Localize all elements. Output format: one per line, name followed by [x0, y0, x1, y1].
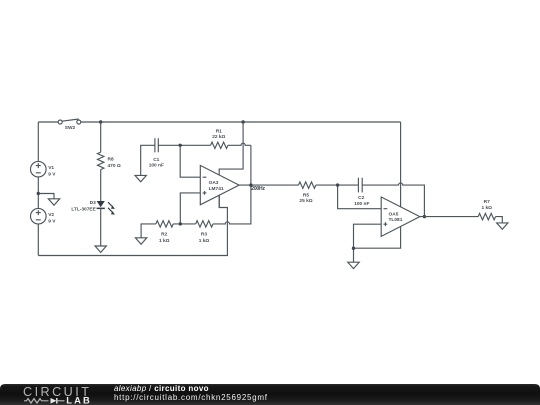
logo diode: [51, 398, 65, 404]
svg-text:D3: D3: [90, 200, 96, 206]
LED D3 LTL-307EE: [71, 200, 115, 215]
wire D3 to ground: [100, 208, 102, 246]
svg-text:LAB: LAB: [66, 395, 90, 405]
footer title alexiabp / circuito novo: [114, 384, 209, 393]
wire R3 right with hop over V- line, up to output node: [213, 185, 251, 224]
resistor R8 470 ohm: [98, 152, 121, 169]
wire ground to C1: [141, 145, 155, 175]
wire OA3 output: [239, 184, 298, 186]
op-amp OA3 LM741: [200, 165, 239, 204]
op-amp OA5 TL081: [381, 197, 420, 236]
resistor R1 22 kohm: [211, 128, 228, 148]
wire OA3 V+ pin from top rail: [219, 122, 243, 175]
ground below D3: [95, 246, 106, 252]
svg-text:OA3: OA3: [209, 180, 219, 186]
svg-text:R2: R2: [161, 232, 167, 238]
svg-text:C1: C1: [153, 157, 159, 163]
wire R7 to ground: [496, 217, 503, 223]
svg-text:alexiabp / circuito novo: alexiabp / circuito novo: [114, 384, 209, 393]
ground below OA5: [348, 262, 359, 268]
svg-text:1 kΩ: 1 kΩ: [481, 205, 492, 211]
svg-text:9 V: 9 V: [48, 171, 56, 177]
ground at C1 left: [135, 175, 146, 181]
node output OA5: [423, 215, 426, 218]
footer bar: [0, 384, 540, 405]
svg-text:V1: V1: [48, 165, 54, 171]
wire OA5 V+ pin from top rail: [400, 122, 402, 207]
resistor R3 1 kohm: [196, 221, 213, 244]
wire R5 to node C: [316, 184, 359, 186]
wire V1 top: [37, 122, 39, 161]
capacitor C2 100 nF: [354, 178, 369, 207]
wire OA3 V- pin to bottom rail (stub): [218, 195, 220, 207]
svg-text:R3: R3: [201, 232, 207, 238]
wire feedback vertical R1 to output node: [250, 145, 252, 185]
logo LAB: [66, 395, 90, 405]
svg-text:http://circuitlab.com/chkn2569: http://circuitlab.com/chkn256925gmf: [114, 393, 268, 402]
wire node A to inverting input: [180, 145, 200, 177]
wire ground to R2: [141, 224, 156, 238]
svg-text:R8: R8: [108, 156, 114, 162]
svg-text:R5: R5: [303, 193, 309, 199]
voltage source V1: [31, 161, 57, 177]
ground at R2 left: [135, 238, 146, 244]
wire top rail to R8: [100, 122, 102, 152]
svg-text:100 nF: 100 nF: [354, 201, 369, 207]
resistor R5 25 kohm: [299, 182, 316, 204]
node C junction R5/C2/OA5 inverting: [336, 183, 339, 186]
footer url: [114, 393, 268, 402]
voltage source V2: [31, 208, 57, 224]
svg-text:200Hz: 200Hz: [251, 186, 265, 192]
svg-text:V2: V2: [48, 212, 54, 218]
wire C2 right with hop over OA5 V+ line, to output corner: [362, 183, 424, 217]
svg-text:LTL-307EE: LTL-307EE: [71, 206, 96, 212]
wire node D to OA5 V- pin: [354, 227, 401, 249]
node output OA3 (200Hz): [249, 183, 265, 192]
wire OA5 output to R7: [420, 216, 478, 218]
ground after R7: [497, 223, 508, 229]
svg-text:R1: R1: [216, 128, 222, 134]
node junction top rail / OA3 V+: [241, 120, 244, 123]
svg-text:SW2: SW2: [65, 125, 76, 131]
node B junction R2/R3/non-inverting: [179, 222, 182, 225]
node A junction C1/R1/inverting input: [179, 144, 182, 147]
wire OA5 non-inverting input to ground node: [354, 224, 382, 262]
svg-text:R7: R7: [484, 199, 490, 205]
svg-text:470 Ω: 470 Ω: [108, 163, 121, 169]
wire node C down to OA5 inverting input: [338, 185, 382, 209]
wire R8 to D3: [100, 170, 102, 201]
ground battery midpoint: [48, 199, 59, 205]
wire non-inverting input down to R2/R3 node: [180, 193, 200, 224]
wire V2 bottom to bottom rail: [37, 224, 39, 256]
wire R2 to R3: [173, 223, 196, 225]
node battery midpoint: [37, 192, 40, 195]
logo resistor zigzag: [24, 399, 49, 403]
switch SW2: [58, 119, 81, 131]
wire midpoint to ground: [38, 194, 54, 199]
resistor R2 1 kohm: [156, 221, 173, 244]
svg-text:1 kΩ: 1 kΩ: [159, 238, 170, 244]
svg-text:25 kΩ: 25 kΩ: [299, 198, 312, 204]
svg-text:9 V: 9 V: [48, 218, 56, 224]
svg-text:1 kΩ: 1 kΩ: [199, 238, 210, 244]
svg-text:C2: C2: [358, 195, 364, 201]
logo CIRCUIT: [23, 385, 91, 399]
svg-text:LM741: LM741: [209, 186, 224, 192]
wire V1 bottom to midpoint: [37, 177, 39, 208]
svg-text:100 nF: 100 nF: [149, 162, 164, 168]
resistor R7 1 kohm: [478, 199, 495, 220]
node D junction +input/V-/ground: [352, 247, 355, 250]
svg-text:22 kΩ: 22 kΩ: [212, 134, 225, 140]
wire R1 right with hop over V+ line, to feedback vertical: [228, 143, 251, 145]
wire top rail from switch to OA5 V+ corner: [81, 121, 401, 123]
wire C1 to node A: [158, 144, 210, 146]
capacitor C1 100 nF: [149, 138, 164, 168]
svg-text:TL081: TL081: [389, 217, 403, 223]
wire bottom rail to OA3 V- pin: [38, 195, 227, 255]
svg-text:OA5: OA5: [389, 211, 399, 217]
wire top rail left from V1 to switch: [38, 121, 58, 123]
node junction top rail / R8: [99, 120, 102, 123]
